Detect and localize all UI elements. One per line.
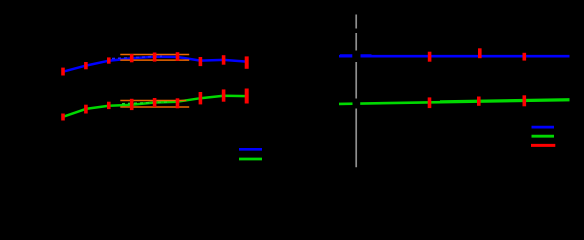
error bar blue p4 — [130, 54, 134, 62]
error bar green p8 — [222, 89, 226, 101]
error bar right-green 3 — [523, 95, 527, 106]
legend right: green sample — [532, 135, 555, 138]
fit band lower line (blue series) — [120, 59, 189, 61]
error bar green p9 — [245, 89, 249, 104]
black marker gap on blue line — [352, 51, 360, 63]
blue thicker overlap segment — [340, 54, 372, 56]
blue dashed fit segment (left plot) — [112, 56, 162, 58]
blue horizontal line (right plot) — [339, 55, 570, 58]
error bar blue p2 — [84, 62, 88, 69]
green thicker overlap segment — [440, 99, 570, 101]
green sloped line (right plot) — [339, 100, 570, 104]
error bar right-blue 2 — [478, 48, 482, 58]
fit band upper line (blue series) — [120, 54, 189, 56]
error bar blue p5 — [153, 53, 157, 62]
legend left: green sample — [239, 158, 262, 161]
error bar blue p3 — [107, 57, 111, 63]
black marker gap on green line — [353, 99, 361, 109]
fit band upper line (green series) — [120, 100, 186, 102]
legend right: blue sample — [532, 126, 555, 129]
error bar green p1 — [61, 114, 65, 121]
error bar blue p6 — [176, 52, 180, 61]
error bar blue p9 — [245, 56, 249, 68]
error bar blue p7 — [199, 57, 203, 66]
legend left: blue sample — [239, 148, 262, 151]
blue curve (left plot) — [63, 57, 247, 72]
error bar right-blue 1 — [428, 52, 432, 62]
error bar right-green 1 — [428, 97, 432, 108]
green curve (left plot) — [63, 96, 247, 117]
gray vertical line: main segment — [355, 33, 357, 167]
error bar green p7 — [199, 92, 203, 104]
green dashed fit segment (left plot) — [122, 102, 168, 104]
error bar blue p1 — [61, 68, 65, 76]
error bar green p2 — [84, 105, 88, 114]
error bar green p4 — [130, 99, 134, 110]
error bar right-green 2 — [477, 97, 481, 106]
legend right: red sample — [531, 144, 555, 147]
error bar right-blue 3 — [523, 53, 527, 61]
fit band lower line (green series) — [120, 106, 189, 108]
error bar blue p8 — [222, 55, 226, 64]
gray vertical line: top dash — [355, 15, 357, 29]
error bar green p6 — [176, 98, 180, 108]
error bar green p3 — [107, 102, 111, 109]
error bar green p5 — [153, 98, 157, 107]
